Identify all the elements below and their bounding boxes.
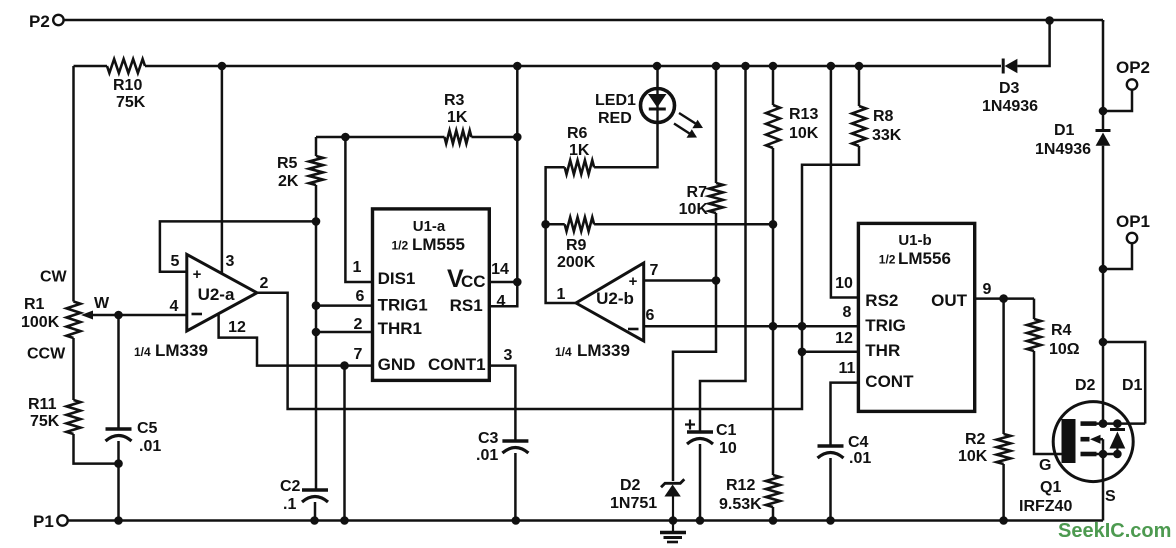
svg-text:U1-a: U1-a (413, 218, 446, 235)
node GND / P1 rail junction (340, 516, 349, 525)
svg-text:LM339: LM339 (155, 341, 208, 360)
svg-text:1/4: 1/4 (134, 345, 151, 359)
node V+ / R13 junction (769, 62, 778, 71)
svg-text:GND: GND (378, 355, 416, 374)
svg-text:C4: C4 (848, 434, 869, 451)
svg-text:6: 6 (356, 288, 365, 305)
wire R2 upper lead (1002, 299, 1005, 434)
wire D1 upper lead (1102, 111, 1105, 129)
svg-text:3: 3 (504, 347, 513, 364)
svg-text:S: S (1105, 488, 1116, 505)
capacitor C2 (302, 488, 328, 492)
wire D1 lower lead to OP1 node (1102, 146, 1105, 269)
resistor R3 (445, 131, 472, 144)
wire VCC riser upper (516, 66, 519, 137)
wire R5 bottom to TRIG/THR/C2 vertical (315, 185, 318, 490)
svg-text:7: 7 (650, 262, 659, 279)
diode D3 1N4936 (1002, 59, 1005, 74)
resistor R5 (309, 156, 323, 185)
node V+ / U2-a pin3 junction (218, 62, 227, 71)
node C1 / P1 rail junction (696, 516, 705, 525)
svg-text:10K: 10K (679, 201, 709, 218)
wire R13 lower / timing node vertical (772, 148, 775, 475)
svg-text:P1: P1 (33, 512, 54, 531)
svg-text:R7: R7 (687, 184, 708, 201)
wire RS1 pin 4 (489, 282, 517, 306)
svg-text:LM339: LM339 (577, 341, 630, 360)
svg-text:OP1: OP1 (1116, 212, 1150, 231)
IC U1-a 1/2 LM555 (373, 209, 490, 381)
node Q1 body diode bottom junction (1113, 450, 1122, 459)
svg-text:U2-a: U2-a (198, 285, 235, 304)
Q1 gate bar (1062, 419, 1076, 463)
wire left vertical from V+ rail to R1 (72, 66, 75, 302)
svg-text:R1: R1 (24, 296, 45, 313)
wire R11 bottom to C5 node (74, 434, 119, 464)
wire R9 left lead (546, 223, 565, 226)
wire C1 riser from V+ rail (700, 66, 746, 431)
svg-text:5: 5 (171, 253, 180, 270)
svg-text:C1: C1 (716, 422, 737, 439)
svg-text:U1-b: U1-b (898, 232, 931, 249)
svg-text:R6: R6 (567, 125, 588, 142)
op-amp U2-a (187, 254, 257, 331)
svg-text:1: 1 (557, 286, 566, 303)
svg-text:.01: .01 (139, 438, 161, 455)
resistor R9 (565, 217, 594, 231)
wire V+ rail (145, 65, 1001, 68)
wire R7 upper lead (715, 66, 718, 183)
terminal P2 (53, 15, 63, 25)
wire OP1 stub (1103, 243, 1132, 269)
svg-text:C5: C5 (137, 420, 158, 437)
node R6 / R9 / U2-b output junction (541, 220, 550, 229)
wire U2-a output (pin 2) (257, 293, 802, 409)
wire right rail to drain node (1102, 269, 1105, 342)
svg-text:12: 12 (835, 330, 853, 347)
wire U2-a +input loop (pin 5) (160, 221, 316, 271)
svg-text:14: 14 (491, 261, 509, 278)
Q1 channel bar body (1081, 437, 1090, 442)
wire VCC pin 14 (489, 137, 517, 282)
svg-text:DIS1: DIS1 (378, 269, 416, 288)
svg-text:THR: THR (865, 341, 900, 360)
svg-text:LM555: LM555 (412, 235, 465, 254)
svg-text:4: 4 (170, 298, 179, 315)
svg-text:12: 12 (228, 319, 246, 336)
node V+ / C1 junction (741, 62, 750, 71)
svg-text:R4: R4 (1051, 322, 1072, 339)
node V+ / R8 junction (855, 62, 864, 71)
node R9 / R13 junction (769, 220, 778, 229)
diode D1 1N4936 (1096, 129, 1111, 132)
wire DIS1 pin 1 riser (345, 137, 372, 282)
node C2 / P1 rail junction (310, 516, 319, 525)
wire U2-a V- (pin 12) to GND line (219, 314, 346, 366)
svg-text:R12: R12 (726, 477, 755, 494)
node V+ / R7 junction (712, 62, 721, 71)
node P1 rail / C5 junction (114, 516, 123, 525)
svg-text:TRIG: TRIG (865, 316, 906, 335)
wire C3 lower lead (514, 453, 517, 521)
svg-text:R10: R10 (113, 77, 142, 94)
svg-text:2: 2 (354, 316, 363, 333)
wire R3 line left corner to R5 (315, 137, 318, 156)
svg-text:1: 1 (353, 259, 362, 276)
svg-text:1/4: 1/4 (555, 345, 572, 359)
svg-text:10K: 10K (958, 448, 988, 465)
svg-text:.1: .1 (283, 496, 296, 513)
svg-text:.01: .01 (849, 450, 871, 467)
svg-text:1N4936: 1N4936 (982, 98, 1038, 115)
wire P2 top rail (64, 19, 1103, 22)
node R12 / P1 rail junction (769, 516, 778, 525)
node THR / R8 vertical junction (798, 348, 807, 357)
wire C5 lower lead (117, 441, 120, 464)
wire GND riser to P1 rail (343, 366, 346, 521)
node V+ / LED1 junction (653, 62, 662, 71)
svg-text:10: 10 (835, 275, 853, 292)
svg-text:Q1: Q1 (1040, 479, 1061, 496)
wire U2-b +input (pin 7) (644, 279, 716, 282)
node C5 / R11 junction (114, 459, 123, 468)
wire CONT pin 11 to C4 (831, 383, 859, 445)
Q1 drain bar line (1097, 422, 1146, 425)
wire LED1 anode lead (656, 66, 659, 89)
svg-text:4: 4 (497, 293, 506, 310)
svg-text:C2: C2 (280, 478, 301, 495)
node R3 / VCC riser junction (513, 133, 522, 142)
svg-text:1N4936: 1N4936 (1035, 141, 1091, 158)
svg-text:R11: R11 (28, 396, 57, 413)
svg-text:RS1: RS1 (450, 296, 483, 315)
svg-text:10: 10 (719, 440, 737, 457)
IC U1-b 1/2 LM556 (858, 223, 974, 411)
svg-text:1K: 1K (569, 142, 590, 159)
capacitor C4 (818, 444, 844, 448)
node Q1 source lead junction (1099, 450, 1108, 459)
svg-text:TRIG1: TRIG1 (378, 296, 428, 315)
node TRIG1 junction (312, 301, 321, 310)
resistor R8 (852, 106, 866, 146)
wire LED1 cathode to R6 (594, 121, 657, 167)
svg-text:RS2: RS2 (865, 291, 898, 310)
node V+ / VCC riser junction (513, 62, 522, 71)
wire TRIG1 pin 6 (316, 304, 373, 307)
transistor Q1 IRFZ40 body circle (1053, 402, 1133, 482)
svg-text:R5: R5 (277, 155, 298, 172)
svg-text:R9: R9 (566, 237, 587, 254)
svg-text:G: G (1039, 457, 1051, 474)
svg-text:LM556: LM556 (898, 249, 951, 268)
wire R7 lower lead (715, 213, 718, 281)
svg-text:33K: 33K (872, 127, 902, 144)
wire D3 anode to P2 rail (1017, 21, 1049, 67)
svg-text:10K: 10K (789, 125, 819, 142)
svg-text:D2: D2 (1075, 377, 1096, 394)
LED LED1 (641, 89, 675, 123)
Q1 body arrow (1100, 438, 1103, 441)
wire C4 lower lead (829, 458, 832, 521)
capacitor C5 (106, 427, 132, 431)
resistor R2 (997, 434, 1011, 464)
wire C2 lower lead (314, 502, 317, 521)
wire R4 upper lead (1033, 299, 1036, 319)
node C4 / P1 rail junction (826, 516, 835, 525)
wire GND pin 7 (345, 364, 373, 367)
wire U2-a V+ riser (pin 3) (221, 66, 224, 273)
node VCC / RS1 junction (513, 278, 522, 287)
svg-text:10Ω: 10Ω (1049, 341, 1080, 358)
node wiper / C5 junction (114, 311, 123, 320)
svg-text:200K: 200K (557, 254, 596, 271)
terminal OP1 (1127, 233, 1137, 243)
svg-text:CCW: CCW (27, 346, 66, 363)
node THR1 junction (312, 328, 321, 337)
Q1 body diode D2 internal (1116, 424, 1118, 429)
node P2/D3 junction (1045, 16, 1054, 25)
wire R8 bottom jog to TRIG/THR vertical (802, 146, 859, 326)
resistor R7 (709, 183, 723, 213)
capacitor C3 (502, 439, 528, 443)
svg-text:THR1: THR1 (378, 319, 422, 338)
svg-text:LED1: LED1 (595, 92, 636, 109)
svg-text:D1: D1 (1122, 377, 1143, 394)
svg-text:1/2: 1/2 (392, 239, 409, 253)
svg-text:D1: D1 (1054, 122, 1075, 139)
svg-text:1/2: 1/2 (879, 253, 896, 267)
wire OP2 stub (1103, 90, 1132, 111)
wire Q1 external drain loop D1 (1103, 342, 1145, 424)
svg-text:3: 3 (226, 253, 235, 270)
wire R9 right lead to R13 line (594, 223, 773, 226)
svg-text:8: 8 (843, 304, 852, 321)
svg-text:75K: 75K (116, 94, 146, 111)
wire V+ rail left corner (74, 65, 108, 68)
node R5 / +input junction (312, 217, 321, 226)
Q1 channel bar source (1081, 452, 1097, 457)
svg-text:CONT1: CONT1 (428, 355, 486, 374)
svg-text:RED: RED (598, 110, 632, 127)
node C3 / P1 rail junction (512, 516, 521, 525)
wire R13 upper lead (772, 66, 775, 105)
node R7 / +input junction (712, 276, 721, 285)
svg-text:1N751: 1N751 (610, 495, 657, 512)
Q1 source bar line (1097, 453, 1118, 456)
node OP2 junction (1099, 107, 1108, 116)
svg-text:R13: R13 (789, 106, 818, 123)
svg-text:+: + (629, 273, 638, 290)
wire OUT pin 9 (975, 297, 1034, 300)
svg-text:R8: R8 (873, 108, 894, 125)
svg-text:6: 6 (646, 307, 655, 324)
wire C5 node to P1 rail (117, 464, 120, 521)
resistor R11 (67, 400, 81, 434)
svg-text:D2: D2 (620, 477, 641, 494)
wire C5 upper lead (117, 315, 120, 429)
svg-text:D3: D3 (999, 80, 1020, 97)
svg-text:2: 2 (260, 275, 269, 292)
node TRIG / R8 vertical junction (798, 322, 807, 331)
wire R4 to gate (1034, 351, 1062, 454)
resistor R4 (1027, 319, 1041, 351)
svg-text:9: 9 (983, 281, 992, 298)
svg-text:W: W (94, 295, 110, 312)
svg-text:P2: P2 (29, 12, 50, 31)
svg-text:OUT: OUT (931, 291, 968, 310)
wire right rail upper segment (1102, 20, 1105, 111)
wire U2-b output (pin 1) (546, 224, 576, 303)
node OUT / R2 junction (999, 294, 1008, 303)
node V+ / RS2 junction (827, 62, 836, 71)
Q1 channel bar drain (1081, 421, 1097, 426)
node Q1 drain lead junction (1099, 419, 1108, 428)
potentiometer R1 wiper arrow (88, 314, 187, 317)
wire CONT1 pin 3 to C3 (489, 366, 515, 441)
node R2 / P1 rail junction (999, 516, 1008, 525)
terminal P1 (57, 515, 67, 525)
wire drain lead (1102, 342, 1105, 424)
resistor R13 (766, 105, 780, 148)
wire R8 upper lead (858, 66, 861, 106)
svg-text:1K: 1K (447, 109, 468, 126)
zener diode D2 1N751 (661, 479, 684, 487)
wire R12 lower lead (772, 507, 775, 521)
wire THR1 pin 2 (316, 331, 373, 334)
svg-text:CONT: CONT (865, 372, 914, 391)
svg-text:C3: C3 (478, 430, 499, 447)
svg-text:11: 11 (839, 360, 856, 377)
svg-text:R2: R2 (965, 431, 986, 448)
terminal OP2 (1127, 79, 1137, 89)
wire R2 lower lead (1002, 464, 1005, 521)
svg-text:2K: 2K (278, 173, 299, 190)
wire Q1 source to P1 rail (1102, 439, 1105, 520)
svg-text:U2-b: U2-b (596, 289, 634, 308)
svg-text:R3: R3 (444, 92, 465, 109)
svg-text:IRFZ40: IRFZ40 (1019, 498, 1072, 515)
node drain top junction (1099, 338, 1108, 347)
wire R6 left lead (546, 167, 565, 224)
svg-text:9.53K: 9.53K (719, 496, 762, 513)
node GND junction (340, 361, 349, 370)
node Q1 body diode top junction (1113, 419, 1122, 428)
node D2 / P1 rail junction (669, 516, 678, 525)
wire RS2 pin 10 riser (831, 66, 859, 298)
svg-text:7: 7 (354, 346, 363, 363)
wire P1 bottom rail (68, 519, 1103, 522)
node R3 / DIS1 junction (341, 133, 350, 142)
svg-text:CC: CC (461, 272, 486, 291)
resistor R10 (107, 59, 145, 73)
resistor R12 (766, 475, 780, 507)
wire U2-b -input (pin 6) TRIG line (644, 325, 859, 328)
svg-text:100K: 100K (21, 314, 60, 331)
svg-text:OP2: OP2 (1116, 58, 1150, 77)
wire R1 to R11 (72, 338, 75, 400)
potentiometer R1 body (67, 302, 81, 339)
node OP1 junction (1099, 265, 1108, 274)
wire C1 lower lead (699, 444, 702, 521)
resistor R6 (565, 160, 594, 174)
wire R3 line (316, 136, 445, 139)
capacitor C1 (687, 430, 713, 434)
ground symbol (672, 521, 674, 532)
wire THR pin 12 (802, 351, 858, 354)
op-amp U2-b (576, 263, 644, 341)
svg-text:.01: .01 (476, 447, 498, 464)
wire +input node to zener D2 (673, 281, 716, 482)
svg-text:CW: CW (40, 269, 68, 286)
node TRIG line / R13 junction (769, 322, 778, 331)
svg-text:SeekIC.com: SeekIC.com (1058, 520, 1171, 542)
svg-text:75K: 75K (30, 413, 60, 430)
svg-text:+: + (193, 266, 202, 283)
capacitor C1 plus sign (685, 420, 695, 430)
